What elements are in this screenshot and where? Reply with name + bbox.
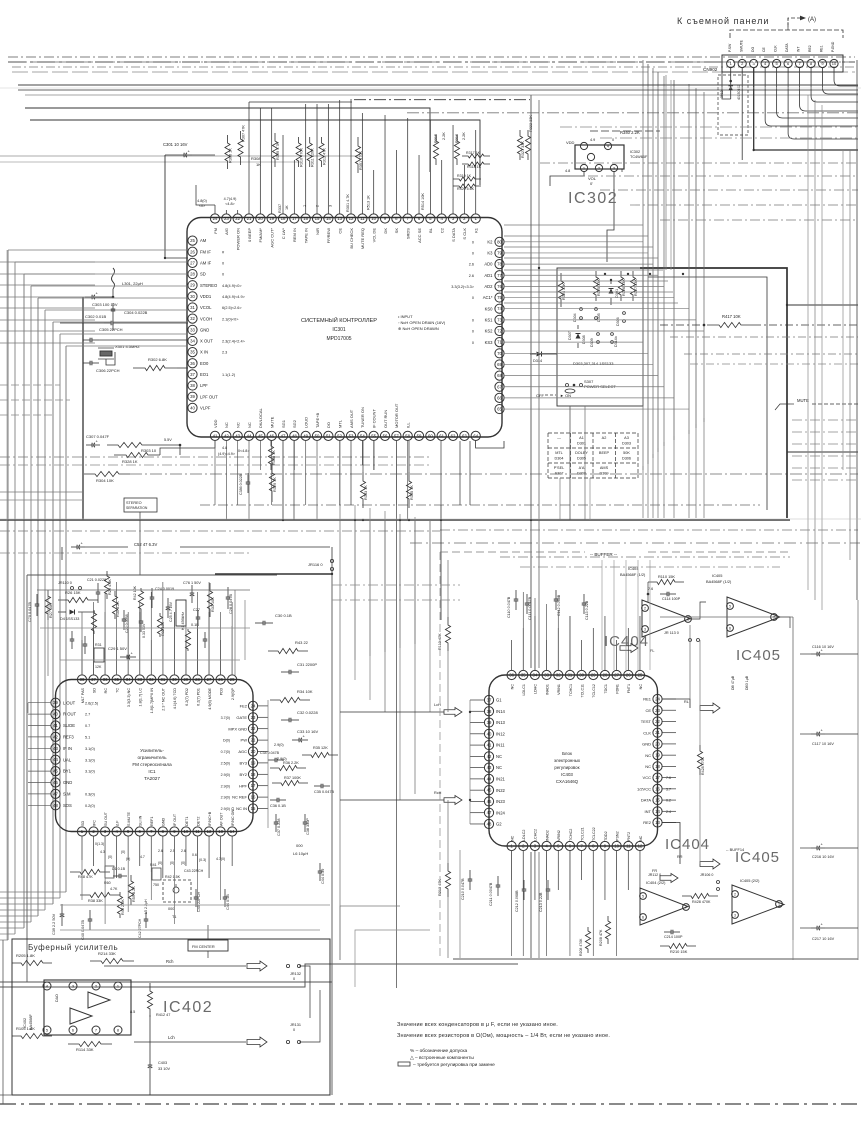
IC1 pin 4 [112, 827, 121, 836]
svg-text:VCOH: VCOH [200, 316, 212, 321]
svg-text:NC: NC [224, 422, 229, 428]
svg-text:20: 20 [655, 741, 660, 746]
svg-text:C21 0.0228: C21 0.0228 [87, 578, 106, 582]
svg-text:ограничитель: ограничитель [138, 755, 168, 760]
wire IC403 right pin stubs [662, 698, 676, 700]
svg-text:64: 64 [473, 433, 478, 438]
IC301 pin 69 [495, 360, 504, 369]
wire dash horizontals right half y100-140 [560, 126, 858, 128]
IC1 pin 22 [248, 724, 257, 733]
svg-text:R321 33K: R321 33K [521, 141, 525, 158]
svg-text:C304 0.022B: C304 0.022B [124, 310, 148, 315]
capacitor C52 47 6.3V [71, 546, 77, 548]
svg-text:34: 34 [126, 677, 131, 682]
svg-text:IC301: IC301 [332, 327, 346, 333]
svg-text:GND: GND [200, 327, 209, 332]
svg-text:(0): (0) [181, 861, 185, 865]
wire LcH RcH feeds [340, 711, 444, 713]
IC301 pin 75 [495, 293, 504, 302]
svg-text:48: 48 [53, 803, 58, 808]
capacitor C210 0.047B [469, 870, 471, 879]
svg-text:0.2(0): 0.2(0) [85, 804, 96, 808]
svg-text:P'SEL: P'SEL [554, 466, 564, 470]
wire bend from pin24 left [196, 185, 215, 205]
svg-text:C306 22PCH: C306 22PCH [96, 368, 120, 373]
IC403 pin 41 [484, 740, 493, 749]
svg-text:DET1: DET1 [185, 817, 189, 826]
svg-text:R26 15K: R26 15K [65, 590, 81, 595]
svg-text:KS0: KS0 [485, 306, 494, 311]
IC301 pin 2 [460, 214, 469, 223]
wire bus top solid 3 [25, 94, 858, 96]
svg-text:23: 23 [224, 216, 229, 221]
svg-text:C303 100 10V: C303 100 10V [92, 302, 118, 307]
IC403 pin 27 [612, 670, 621, 679]
svg-text:R317 1K: R317 1K [466, 151, 481, 155]
svg-text:11: 11 [626, 844, 631, 849]
IC403 pin 33 [542, 670, 551, 679]
svg-text:18: 18 [251, 772, 256, 777]
svg-text:61: 61 [439, 433, 444, 438]
IC403 pin 38 [484, 707, 493, 716]
IC403 pin 40 [484, 729, 493, 738]
svg-text:R59 8.2K: R59 8.2K [132, 886, 136, 902]
wire top gray streak [0, 155, 360, 157]
svg-text:R35 12K: R35 12K [313, 746, 328, 750]
svg-text:43: 43 [235, 433, 240, 438]
resistor R110 15K [648, 579, 684, 584]
svg-text:45: 45 [258, 433, 263, 438]
svg-text:R38 33K: R38 33K [88, 899, 103, 903]
wire IC1 left pin stubs [28, 702, 51, 704]
IC402 pin 1 [114, 982, 122, 990]
resistor R29 4.3K [104, 571, 109, 599]
svg-text:6.2(7) PD2: 6.2(7) PD2 [185, 688, 189, 706]
jumper JR132 [286, 964, 289, 967]
svg-text:1K: 1K [285, 205, 289, 210]
svg-text:1: 1 [583, 166, 585, 170]
svg-text:TA2027: TA2027 [144, 776, 160, 781]
IC301 pin 67 [495, 382, 504, 391]
svg-text:FNT2: FNT2 [627, 832, 631, 841]
svg-text:R417 10K: R417 10K [722, 314, 741, 319]
svg-text:48: 48 [292, 433, 297, 438]
svg-text:3: 3 [72, 983, 74, 988]
IC302 mini body [575, 145, 624, 169]
capacitor C37 0.228 [275, 814, 277, 822]
svg-text:50K: 50K [623, 451, 630, 455]
svg-text:2.9(0)P: 2.9(0)P [231, 687, 235, 700]
svg-text:34: 34 [190, 338, 195, 343]
IC302 pin 1 bottom [580, 164, 587, 171]
svg-text:NC: NC [639, 684, 643, 690]
svg-text:• INPUT: • INPUT [398, 314, 413, 319]
svg-text:C302 0.01B: C302 0.01B [85, 314, 106, 319]
svg-text:TCHC1: TCHC1 [569, 684, 573, 696]
svg-text:C43 22PCH: C43 22PCH [184, 869, 204, 873]
svg-text:R29 4.3K: R29 4.3K [108, 579, 112, 595]
resistor R205 1.8K [12, 960, 52, 965]
svg-text:C25 4.7 16V: C25 4.7 16V [169, 601, 173, 622]
svg-text:48: 48 [487, 822, 492, 827]
wire lower mid L-shapes [340, 906, 400, 960]
svg-text:NC: NC [639, 835, 643, 841]
box FM CENTER [188, 940, 228, 951]
svg-text:1: 1 [778, 902, 780, 906]
svg-text:30: 30 [579, 673, 584, 678]
svg-text:R105 1.8K: R105 1.8K [16, 1026, 35, 1031]
svg-text:43: 43 [487, 765, 492, 770]
wire dash bus y113 [407, 112, 858, 114]
svg-text:2: 2 [598, 166, 600, 170]
IC402 op-amp A [88, 992, 110, 1008]
svg-text:SRDS: SRDS [405, 228, 410, 239]
svg-text:50: 50 [315, 433, 320, 438]
svg-text:4.3: 4.3 [100, 850, 105, 854]
svg-text:68: 68 [497, 373, 502, 378]
svg-text:1: 1 [303, 205, 307, 207]
resistor R33 10K [207, 583, 212, 617]
wire pin64 elbow right [476, 441, 504, 448]
IC1 pin 33 [135, 675, 144, 684]
svg-text:X301 4.5MHZ: X301 4.5MHZ [115, 344, 140, 349]
svg-text:IC404: IC404 [604, 633, 649, 650]
svg-text:MOTOR OUT: MOTOR OUT [394, 403, 399, 428]
svg-text:SD: SD [92, 688, 96, 693]
svg-text:AM: AM [200, 238, 207, 243]
svg-text:SOS: SOS [63, 803, 72, 808]
wire thick bottom section [453, 958, 858, 960]
svg-text:G2: G2 [496, 822, 502, 827]
capacitor C40 0.047B [89, 910, 91, 919]
IC402 pin 5 [43, 1026, 51, 1034]
svg-text:2.6(2.5): 2.6(2.5) [85, 701, 99, 705]
IC403 pin 19 [653, 751, 662, 760]
svg-text:12: 12 [349, 216, 354, 221]
wire IC302 pin1 down [550, 172, 584, 186]
svg-text:VDD1: VDD1 [200, 294, 212, 299]
IC301 pin 12 [346, 214, 355, 223]
svg-text:29: 29 [591, 673, 596, 678]
svg-text:электронных: электронных [554, 758, 581, 763]
wire right edge vertical upper [856, 60, 858, 600]
capacitor C32 0.0228 [281, 719, 289, 721]
junction dots on buses [164, 257, 166, 259]
svg-text:Lch: Lch [168, 1035, 175, 1040]
IC403 pin 2 [519, 841, 528, 850]
svg-text:Rch: Rch [166, 959, 174, 964]
wire IC301 bottom long drops [395, 441, 397, 988]
svg-text:4.9: 4.9 [590, 138, 595, 142]
wire right edge long verticals [814, 100, 816, 600]
svg-text:0: 0 [293, 1028, 295, 1032]
svg-text:JR132: JR132 [290, 972, 301, 976]
IC301 pin 18 [278, 214, 287, 223]
IC403 pin 6 [565, 841, 574, 850]
svg-text:DB3 1μB: DB3 1μB [745, 675, 749, 690]
svg-text:VLPF: VLPF [200, 405, 211, 410]
IC1 pin 9 [170, 827, 179, 836]
svg-text:JR110 0: JR110 0 [58, 581, 72, 585]
svg-text:1.8(1.7)MPX IN: 1.8(1.7)MPX IN [150, 688, 154, 714]
resistor R318 1K [462, 162, 490, 166]
svg-text:12: 12 [638, 844, 643, 849]
IC301 pin 20 [256, 214, 265, 223]
svg-text:28: 28 [603, 673, 608, 678]
svg-text:14: 14 [326, 216, 331, 221]
svg-text:R319 1K: R319 1K [457, 174, 472, 178]
svg-text:NC: NC [645, 753, 651, 758]
IC1 pin 30 [170, 675, 179, 684]
svg-text:21: 21 [655, 730, 660, 735]
capacitor C44 0.39 [319, 863, 321, 871]
svg-text:D309: D309 [599, 472, 608, 476]
svg-text:26: 26 [190, 249, 195, 254]
svg-text:RL: RL [684, 700, 689, 704]
wire top rail IC1 section [37, 589, 250, 591]
svg-text:0.3(0): 0.3(0) [85, 793, 96, 797]
wires IC1 top pins up [81, 640, 83, 675]
capacitor C116 10 16V [811, 653, 817, 655]
svg-text:C305 22PCH: C305 22PCH [99, 327, 123, 332]
IC301 pin 35 [188, 348, 197, 357]
svg-text:AMS OUT: AMS OUT [349, 409, 354, 428]
resistor R426 470K vertical [697, 745, 702, 775]
svg-text:C113 0.22B: C113 0.22B [585, 600, 589, 620]
svg-text:% – обозначение допуска: % – обозначение допуска [410, 1048, 468, 1054]
svg-text:18: 18 [281, 216, 286, 221]
wire lower-left horizontal y1095 [0, 1094, 12, 1096]
capacitor C303 100 10V [85, 296, 92, 298]
svg-text:EO1: EO1 [200, 372, 209, 377]
wire left vertical bundle [7, 250, 9, 940]
svg-text:36: 36 [190, 361, 195, 366]
svg-text:IC402: IC402 [163, 999, 213, 1016]
svg-text:42: 42 [224, 433, 229, 438]
IC1 pin 27 [204, 675, 213, 684]
svg-text:DAO: DAO [55, 994, 59, 1002]
svg-text:RE2: RE2 [808, 45, 812, 52]
IC1 pin 21 [248, 736, 257, 745]
IC301 pin 46 [267, 431, 276, 440]
svg-text:SEPARATION: SEPARATION [126, 506, 148, 510]
IC301 pin 63 [460, 431, 469, 440]
wire right dashed horizontals [540, 162, 858, 164]
svg-text:44: 44 [487, 776, 492, 781]
resistor R351 470K [355, 137, 360, 173]
svg-text:72: 72 [497, 329, 502, 334]
svg-text:37: 37 [91, 677, 96, 682]
svg-text:35: 35 [190, 350, 195, 355]
svg-text:IN14: IN14 [496, 709, 506, 714]
svg-text:3.7: 3.7 [666, 787, 671, 791]
IC301 pin 59 [414, 431, 423, 440]
resistor R304 10K [84, 471, 130, 476]
svg-text:R333 1K: R333 1K [364, 485, 368, 500]
svg-text:N/R: N/R [315, 228, 320, 235]
svg-text:C214 100P: C214 100P [664, 935, 683, 939]
IC403 pin 16 [653, 784, 662, 793]
capacitor C25 4.7 16V [167, 598, 169, 607]
svg-text:FM IF: FM IF [200, 249, 211, 254]
IC1 cluster extra caps [71, 631, 73, 639]
svg-text:19: 19 [251, 760, 256, 765]
svg-text:(0): (0) [170, 861, 174, 865]
svg-text:◦ NcH OPEN DRAIN (16V): ◦ NcH OPEN DRAIN (16V) [398, 320, 446, 325]
svg-text:VCC: VCC [643, 775, 652, 780]
svg-text:C42 27PCH: C42 27PCH [138, 918, 142, 938]
svg-text:39: 39 [190, 394, 195, 399]
IC301 pin 29 [188, 281, 197, 290]
svg-text:65: 65 [497, 407, 502, 412]
svg-text:2.9(0): 2.9(0) [221, 807, 230, 811]
IC301 pin 31 [188, 303, 197, 312]
svg-text:15: 15 [315, 216, 320, 221]
resistor R309 4.7K [272, 133, 277, 167]
svg-text:AMS: AMS [600, 466, 609, 470]
IC403 pin 43 [484, 763, 493, 772]
svg-text:10: 10 [371, 216, 376, 221]
IC1 pin 14 [228, 827, 237, 836]
svg-text:FE2: FE2 [240, 704, 248, 709]
IC403 pin 5 [554, 841, 563, 850]
bracket over connector [730, 30, 843, 38]
svg-text:IN13: IN13 [496, 720, 506, 725]
IC403 pin 46 [484, 797, 493, 806]
svg-text:СИСТЕМНЫЙ КОНТРОЛЛЕР: СИСТЕМНЫЙ КОНТРОЛЛЕР [301, 316, 377, 324]
resistor R37 100K [272, 780, 308, 785]
svg-text:R351 470K: R351 470K [359, 151, 363, 170]
wire mid dash y531 [0, 530, 440, 532]
IC403 pin 18 [653, 762, 662, 771]
wire mid verticals connecting sections [354, 505, 356, 660]
IC1 pin 40 [51, 710, 60, 719]
IC403 pin 34 [530, 670, 539, 679]
svg-text:2: 2 [734, 892, 736, 896]
IC302 pin c1 top [580, 142, 587, 149]
svg-text:0.33 50V: 0.33 50V [142, 623, 146, 638]
wire below IC1 rails [60, 904, 330, 906]
resistor R335 1K vertical [406, 472, 411, 508]
svg-text:R428 470K: R428 470K [701, 756, 705, 775]
svg-text:D1 0.1B: D1 0.1B [112, 867, 126, 871]
svg-text:△ – встроенные компоненты: △ – встроенные компоненты [410, 1055, 474, 1061]
connector CN902 body [722, 55, 843, 72]
svg-text:70: 70 [497, 351, 502, 356]
capacitor C23 0.33 50V [140, 612, 142, 621]
resistor R302 6.8K [133, 365, 177, 370]
svg-text:38: 38 [487, 709, 492, 714]
capacitor C213 0.22B [547, 880, 549, 889]
svg-text:—: — [557, 436, 561, 440]
wire verticals between CN902 and IC302 [665, 75, 667, 270]
svg-text:BY3: BY3 [239, 761, 247, 766]
svg-text:4.7(4.9): 4.7(4.9) [224, 197, 237, 201]
IC301 pin 19 [267, 214, 276, 223]
wire table drops [559, 478, 561, 520]
IC301 pin 13 [335, 214, 344, 223]
svg-text:24: 24 [251, 703, 256, 708]
IC1 pin 23 [248, 713, 257, 722]
resistor R59 8.2K vertical [128, 875, 133, 905]
svg-text:MPX GND: MPX GND [228, 726, 247, 731]
svg-text:0: 0 [222, 273, 224, 277]
resistor R35 12K [302, 752, 338, 757]
svg-text:32: 32 [149, 677, 154, 682]
svg-text:C210 0.047B: C210 0.047B [461, 878, 465, 900]
resistor R306 1K [225, 135, 230, 169]
IC403 pin 3 [530, 841, 539, 850]
svg-text:0': 0' [590, 181, 593, 186]
svg-text:41: 41 [487, 743, 492, 748]
IC403 pin 10 [612, 841, 621, 850]
wire pins down to mid bus [282, 441, 284, 470]
resistor R26 15K [58, 597, 98, 602]
svg-text:R214 33K: R214 33K [98, 951, 116, 956]
svg-text:17: 17 [655, 775, 660, 780]
svg-text:регулировок: регулировок [554, 765, 579, 770]
svg-text:FM: FM [213, 228, 218, 234]
svg-text:2.6: 2.6 [469, 274, 474, 278]
svg-text:31: 31 [568, 673, 573, 678]
svg-text:56: 56 [383, 433, 388, 438]
svg-text:40: 40 [487, 731, 492, 736]
wire right rail vertical [267, 700, 269, 828]
IC1 pin 11 [193, 827, 202, 836]
svg-text:0: 0 [472, 330, 474, 334]
svg-text:44: 44 [53, 757, 58, 762]
resistor R329 1K vertical [269, 462, 274, 502]
svg-text:74: 74 [497, 306, 502, 311]
capacitor C35 0.047B [314, 785, 321, 787]
svg-text:TDC1: TDC1 [604, 684, 608, 694]
IC1 pin 16 [248, 793, 257, 802]
wire dash y354 [684, 353, 858, 355]
resistor R105 1.8K [12, 1033, 52, 1038]
IC301 pin 61 [437, 431, 446, 440]
svg-text:C212 0.068B: C212 0.068B [515, 890, 519, 912]
IC403 pin 8 [589, 841, 598, 850]
IC301 pin 42 [222, 431, 231, 440]
wire verticals from op-amps down [689, 625, 691, 699]
svg-text:Блок: Блок [562, 751, 572, 756]
IC301 pin 44 [244, 431, 253, 440]
wire vertical x539 long [538, 100, 540, 668]
svg-text:DET2: DET2 [196, 817, 200, 826]
wire left edge dashes y385-430 [0, 384, 60, 386]
IC1 pin 10 [181, 827, 190, 836]
svg-text:IC405: IC405 [712, 573, 722, 578]
IC301 pin 51 [324, 431, 333, 440]
svg-text:3: 3 [328, 205, 332, 207]
capacitor C39 2.2 50V [61, 904, 63, 914]
wire mid thick bus y520 [0, 519, 790, 521]
svg-text:R337: R337 [278, 204, 282, 213]
wire solid y305 right [787, 304, 858, 306]
svg-text:58: 58 [405, 433, 410, 438]
wire IC301 bottom pin drops [214, 441, 216, 506]
svg-text:0<4.8>: 0<4.8> [238, 449, 249, 453]
wire x470 lower verticals [459, 850, 461, 958]
svg-text:D314b: D314b [614, 336, 618, 347]
svg-text:(0): (0) [121, 850, 125, 854]
svg-text:2.2K: 2.2K [442, 132, 446, 140]
IC403 pin 24 [653, 694, 662, 703]
capacitor C214 100P [664, 931, 671, 933]
svg-text:S.MUTE: S.MUTE [127, 812, 131, 826]
svg-text:3.7(0): 3.7(0) [221, 716, 230, 720]
IC301 pin 57 [392, 431, 401, 440]
